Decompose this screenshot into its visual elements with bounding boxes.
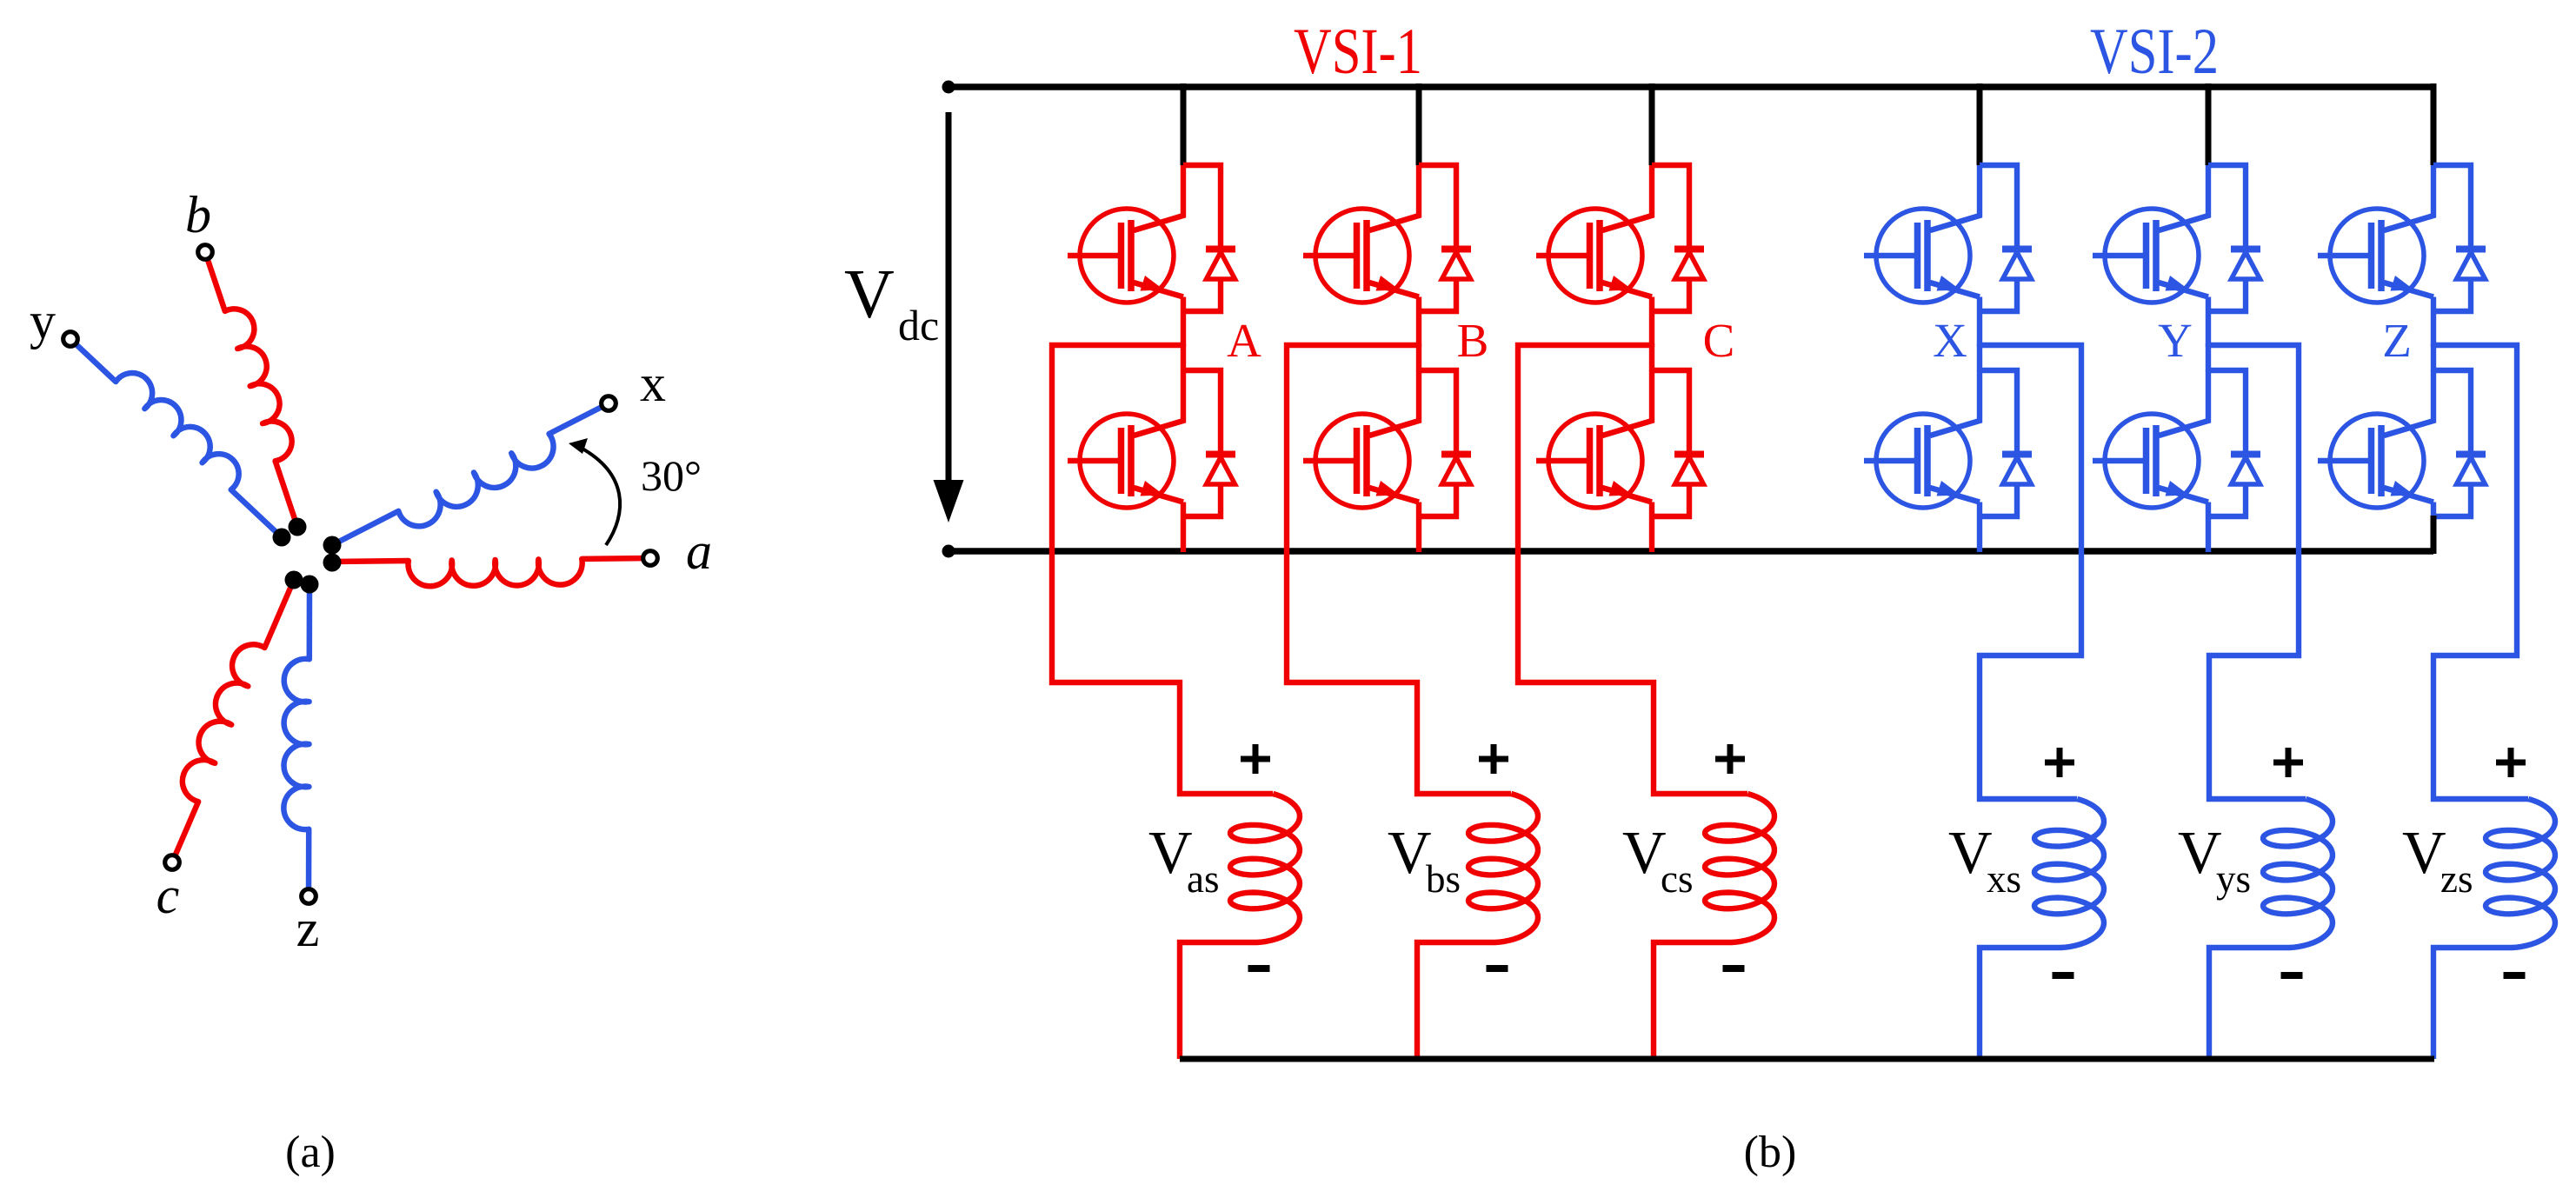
wire: phase A output bbox=[1052, 345, 1273, 794]
inductor load Vcs winding bbox=[1705, 794, 1774, 942]
terminal b bbox=[198, 245, 213, 260]
node X midpoint bbox=[1977, 343, 1982, 371]
wire: load C to neutral bus bbox=[1654, 942, 1732, 1059]
terminal y bbox=[63, 332, 78, 347]
IGBT SC2 (lower) with freewheel diode DC2 bbox=[1536, 370, 1704, 552]
IGBT SC1 (upper) with freewheel diode DC1 bbox=[1536, 165, 1704, 347]
svg-text:x: x bbox=[640, 355, 666, 412]
inductor load Vzs winding bbox=[2486, 799, 2555, 948]
svg-text:as: as bbox=[1187, 857, 1220, 901]
wire: phase Z output bbox=[2433, 345, 2528, 799]
svg-text:30°: 30° bbox=[641, 451, 702, 500]
svg-text:A: A bbox=[1227, 314, 1261, 367]
wire: load X to neutral bus bbox=[1980, 948, 2061, 1059]
svg-text:(b): (b) bbox=[1744, 1128, 1797, 1177]
leg Y: top stub bbox=[2206, 83, 2212, 165]
svg-text:b: b bbox=[185, 186, 211, 243]
svg-text:dc: dc bbox=[898, 301, 939, 349]
IGBT SZ1 (upper) with freewheel diode DZ1 bbox=[2318, 165, 2486, 347]
wire: phase X output bbox=[1980, 345, 2081, 799]
svg-text:Y: Y bbox=[2158, 314, 2193, 367]
IGBT SB2 (lower) with freewheel diode DB2 bbox=[1303, 370, 1471, 552]
DC negative rail bbox=[949, 548, 2433, 555]
IGBT SX2 (lower) with freewheel diode DX2 bbox=[1864, 370, 2032, 552]
svg-text:V: V bbox=[2178, 820, 2222, 887]
load neutral bus bbox=[1180, 1056, 2434, 1062]
node z-end junction dot bbox=[301, 576, 319, 594]
node A midpoint bbox=[1181, 343, 1186, 371]
svg-text:V: V bbox=[2402, 820, 2446, 887]
svg-text:c: c bbox=[156, 867, 180, 924]
leg X: top stub bbox=[1977, 83, 1983, 165]
svg-text:VSI-2: VSI-2 bbox=[2090, 16, 2219, 88]
wire: phase C output bbox=[1518, 345, 1747, 794]
svg-text:a: a bbox=[686, 522, 712, 580]
label - polarity X bbox=[2053, 972, 2074, 979]
IGBT SA1 (upper) with freewheel diode DA1 bbox=[1068, 165, 1235, 347]
leg A: top stub bbox=[1181, 83, 1187, 165]
label - polarity Y bbox=[2281, 972, 2303, 979]
label + polarity B bbox=[1479, 744, 1508, 774]
label - polarity Z bbox=[2504, 972, 2526, 979]
IGBT SA2 (lower) with freewheel diode DA2 bbox=[1068, 370, 1235, 552]
node y-end junction dot bbox=[273, 529, 291, 547]
Vdc arrow bbox=[946, 112, 952, 480]
IGBT SY1 (upper) with freewheel diode DY1 bbox=[2093, 165, 2260, 347]
label + polarity C bbox=[1715, 744, 1745, 774]
node DC- bbox=[942, 545, 955, 558]
node c-end junction dot bbox=[285, 571, 303, 589]
node x-end junction dot bbox=[323, 536, 342, 555]
inductor load Vbs winding bbox=[1468, 794, 1538, 942]
wire: load B to neutral bus bbox=[1417, 942, 1495, 1059]
svg-text:V: V bbox=[1148, 820, 1193, 887]
30-degree angle arrow bbox=[581, 448, 620, 545]
wire: phase B output bbox=[1287, 345, 1511, 794]
winding phase a (stator coil) bbox=[332, 558, 650, 586]
label - polarity B bbox=[1487, 965, 1508, 972]
wire: load Y to neutral bus bbox=[2209, 948, 2290, 1059]
svg-text:V: V bbox=[1948, 820, 1993, 887]
svg-text:z: z bbox=[296, 900, 320, 957]
wire: load Z to neutral bus bbox=[2433, 948, 2513, 1059]
node b-end junction dot bbox=[289, 518, 307, 536]
winding phase x (stator coil) bbox=[332, 403, 609, 545]
node a-end junction dot bbox=[323, 554, 342, 572]
svg-text:y: y bbox=[30, 292, 56, 349]
winding phase y (stator coil) bbox=[70, 339, 282, 537]
svg-text:B: B bbox=[1457, 314, 1489, 367]
svg-text:C: C bbox=[1703, 314, 1735, 367]
winding phase c (stator coil) bbox=[172, 580, 294, 862]
winding phase z (stator coil) bbox=[283, 584, 310, 896]
IGBT SZ2 (lower) with freewheel diode DZ2 bbox=[2318, 370, 2486, 552]
inductor load Vas winding bbox=[1230, 794, 1300, 942]
svg-text:V: V bbox=[1388, 820, 1432, 887]
node Z midpoint bbox=[2431, 343, 2436, 371]
svg-text:VSI-1: VSI-1 bbox=[1294, 16, 1422, 88]
inductor load Vys winding bbox=[2263, 799, 2333, 948]
node C midpoint bbox=[1649, 343, 1654, 371]
label + polarity A bbox=[1241, 744, 1270, 774]
winding phase b (stator coil) bbox=[205, 252, 297, 527]
leg Z: top stub bbox=[2431, 83, 2437, 165]
terminal z bbox=[302, 889, 316, 904]
svg-text:cs: cs bbox=[1661, 857, 1694, 901]
svg-text:zs: zs bbox=[2440, 857, 2473, 901]
label + polarity Y bbox=[2273, 748, 2303, 777]
terminal a bbox=[643, 551, 658, 566]
label - polarity A bbox=[1248, 965, 1270, 972]
terminal c bbox=[165, 855, 180, 870]
terminal x bbox=[602, 396, 616, 411]
wire: phase Y output bbox=[2208, 345, 2306, 799]
node Y midpoint bbox=[2206, 343, 2211, 371]
svg-text:xs: xs bbox=[1987, 857, 2021, 901]
wire: load A to neutral bus bbox=[1180, 942, 1257, 1059]
svg-text:bs: bs bbox=[1426, 857, 1461, 901]
IGBT SY2 (lower) with freewheel diode DY2 bbox=[2093, 370, 2260, 552]
wire: top-rail right corner (already via Z stub) ; bottom-right rail nub bbox=[2431, 516, 2437, 554]
svg-text:(a): (a) bbox=[285, 1128, 336, 1177]
svg-text:V: V bbox=[1622, 820, 1667, 887]
label - polarity C bbox=[1723, 965, 1745, 972]
leg C: top stub bbox=[1649, 83, 1655, 165]
label + polarity Z bbox=[2496, 748, 2526, 777]
node DC+ bbox=[942, 81, 955, 94]
node B midpoint bbox=[1416, 343, 1421, 371]
IGBT SX1 (upper) with freewheel diode DX1 bbox=[1864, 165, 2032, 347]
svg-text:ys: ys bbox=[2216, 857, 2251, 901]
svg-text:X: X bbox=[1933, 314, 1967, 367]
leg B: top stub bbox=[1416, 83, 1422, 165]
DC positive rail bbox=[949, 83, 2433, 90]
svg-text:V: V bbox=[844, 256, 895, 333]
svg-text:Z: Z bbox=[2382, 314, 2412, 367]
label + polarity X bbox=[2045, 748, 2074, 777]
inductor load Vxs winding bbox=[2034, 799, 2104, 948]
IGBT SB1 (upper) with freewheel diode DB1 bbox=[1303, 165, 1471, 347]
